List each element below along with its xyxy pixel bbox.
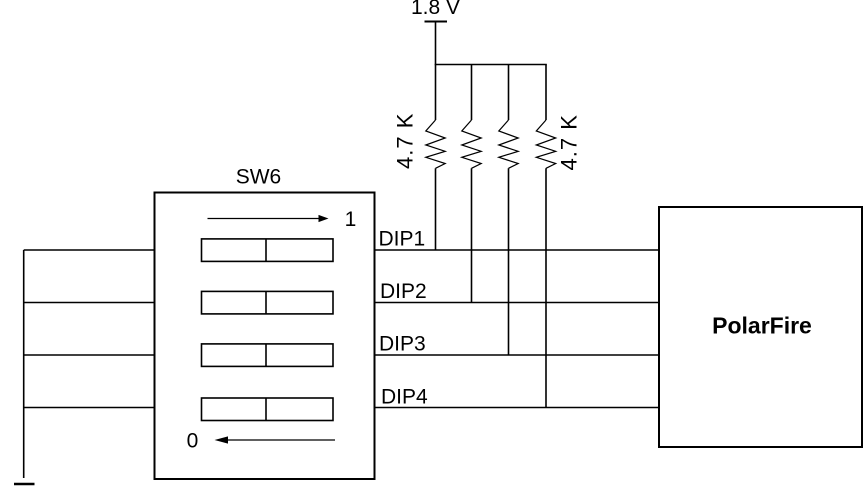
wire net DIP1: [375, 249, 660, 251]
power supply bar 1.8V: [425, 21, 448, 23]
wire SW3 left: [24, 354, 155, 356]
switch element 4: [202, 398, 334, 421]
resistor R2 4.7K: [462, 65, 481, 303]
svg-text:DIP1: DIP1: [379, 227, 426, 250]
arrow (OFF direction, left): [215, 436, 336, 443]
svg-text:1.8 V: 1.8 V: [411, 0, 460, 19]
svg-text:SW6: SW6: [236, 166, 282, 189]
wire SW2 left: [24, 302, 155, 304]
svg-text:0: 0: [187, 430, 199, 453]
svg-text:DIP4: DIP4: [381, 385, 428, 408]
wire net DIP3: [375, 354, 660, 356]
arrow (ON direction, right): [208, 215, 329, 222]
svg-text:4.7 K: 4.7 K: [557, 114, 582, 170]
wire from 1.8V bar to rail: [435, 22, 437, 65]
svg-text:DIP2: DIP2: [380, 280, 427, 303]
svg-text:4.7 K: 4.7 K: [393, 113, 418, 169]
ground: [14, 483, 35, 485]
svg-text:1: 1: [345, 208, 357, 231]
wire SW4 left: [24, 407, 155, 409]
resistor R1 4.7K: [426, 65, 445, 251]
resistor R4 4.7K: [536, 65, 555, 408]
switch SW6 box: [155, 193, 375, 480]
wire top rail: [435, 64, 547, 66]
wire net DIP4: [375, 407, 660, 409]
wire net DIP2: [375, 302, 660, 304]
FPGA U1 PolarFire box: [659, 207, 862, 447]
wire SW1 left: [24, 249, 155, 251]
switch element 1: [202, 239, 334, 262]
switch element 2: [202, 291, 334, 314]
wire left bus vertical: [23, 250, 25, 478]
resistor R3 4.7K: [499, 65, 518, 356]
svg-text:DIP3: DIP3: [379, 332, 426, 355]
switch element 3: [202, 344, 334, 367]
svg-text:PolarFire: PolarFire: [712, 313, 812, 339]
